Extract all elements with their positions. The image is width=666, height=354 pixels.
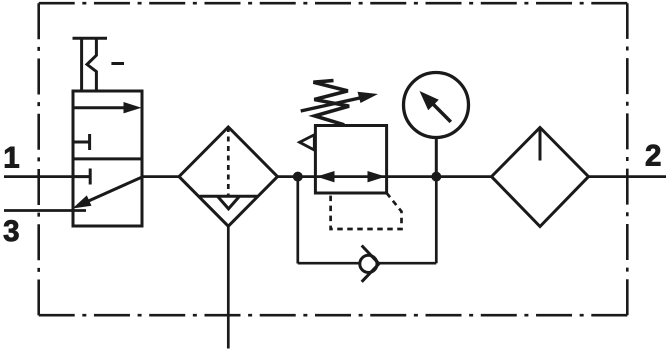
- regulator R1 relief vent triangle: [300, 135, 315, 150]
- valve V1 upper position flow arrow: [73, 102, 142, 113]
- valve V1 lower position blocked port: [73, 169, 90, 185]
- valve V1 lower position exhaust arrow: [73, 178, 142, 209]
- check valve bypass bottom left: [298, 262, 360, 265]
- filter F1 element dashed: [227, 127, 230, 196]
- wire port 1 to valve: [4, 175, 73, 178]
- check valve bypass bottom right: [378, 262, 436, 265]
- enclosure border right: [626, 3, 629, 315]
- svg-text:1: 1: [3, 141, 19, 174]
- regulator R1 body: [315, 126, 386, 194]
- check valve CV1: [360, 246, 379, 282]
- regulator R1 flow arrows: [317, 171, 386, 182]
- regulator R1 adjustment arrow: [301, 92, 378, 111]
- wire filter to regulator to gauge junction to lubricator: [278, 175, 492, 178]
- junction dot A: [293, 172, 303, 182]
- check valve bypass left leg: [296, 177, 299, 264]
- wire valve to filter: [142, 175, 181, 178]
- enclosure border top: [39, 2, 628, 5]
- filter F1 drain line: [227, 226, 230, 348]
- valve V1 manual actuator: [73, 38, 125, 91]
- regulator R1 adjustment spring: [313, 81, 349, 125]
- enclosure border left: [37, 3, 40, 315]
- svg-text:2: 2: [645, 139, 661, 172]
- svg-text:3: 3: [3, 215, 19, 248]
- enclosure border bottom: [39, 314, 628, 317]
- lubricator L1 body: [492, 128, 589, 227]
- wire port 3 to valve: [4, 209, 86, 212]
- valve V1 upper position blocked port: [73, 134, 90, 150]
- gauge G1 needle: [420, 91, 451, 122]
- junction dot B: [431, 172, 441, 182]
- filter F1 separator baffle: [200, 196, 258, 209]
- regulator R1 pilot line dashed: [331, 193, 402, 229]
- filter F1 body: [179, 127, 278, 226]
- check valve bypass right leg: [435, 177, 438, 264]
- lubricator L1 drip stub: [539, 128, 542, 161]
- gauge G1 stem: [435, 137, 438, 177]
- pressure gauge G1: [404, 73, 469, 138]
- wire lubricator to port 2: [588, 175, 666, 178]
- valve V1 body: [73, 91, 142, 226]
